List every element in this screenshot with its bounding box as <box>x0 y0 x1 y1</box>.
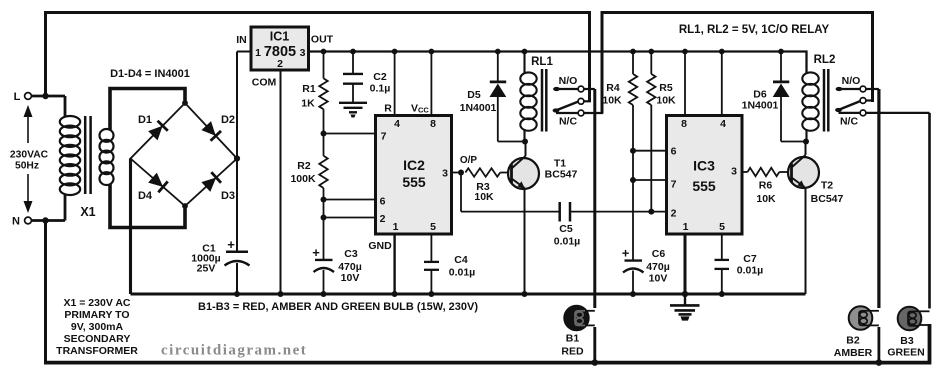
node: +5V rail at R4 <box>630 49 636 55</box>
svg-text:2: 2 <box>277 58 283 70</box>
svg-text:1: 1 <box>255 47 261 59</box>
diode D1 <box>148 121 168 141</box>
svg-text:2: 2 <box>380 213 386 225</box>
svg-text:3: 3 <box>731 166 737 178</box>
wire: B1 line from RL1 N/O <box>593 89 596 308</box>
wire: RL2 N/C to B3 line <box>866 112 930 114</box>
svg-text:D2: D2 <box>221 114 235 126</box>
wire: 0V ground rail <box>131 293 806 296</box>
node: COM ground <box>278 291 284 297</box>
node: C7 ground <box>719 291 725 297</box>
node: C1 ground <box>234 291 240 297</box>
transistor T2 BC547 <box>788 157 819 188</box>
wire: bridge diamond <box>131 103 238 206</box>
svg-text:IC2: IC2 <box>403 157 425 173</box>
resistor R3 10K <box>465 168 500 176</box>
svg-text:N/O: N/O <box>559 75 578 87</box>
diode D4 <box>148 172 168 192</box>
wire: right block 230V N/C feed border <box>602 13 873 114</box>
svg-text:IC1: IC1 <box>270 30 290 44</box>
svg-text:B1: B1 <box>566 333 580 345</box>
svg-text:25V: 25V <box>197 263 216 275</box>
svg-text:D1-D4 = IN4001: D1-D4 = IN4001 <box>110 68 190 80</box>
svg-text:9V, 300mA: 9V, 300mA <box>71 321 124 333</box>
svg-text:4: 4 <box>720 118 726 130</box>
wire: IC3 pin 5 to C7 <box>721 234 723 260</box>
wire: IC3 pin 3 to R6 <box>742 171 748 173</box>
svg-text:1: 1 <box>683 221 689 233</box>
svg-text:D1: D1 <box>138 114 152 126</box>
svg-text:0.01µ: 0.01µ <box>737 265 764 277</box>
resistor R5 10K <box>650 52 652 75</box>
node: R5 to trigger wire <box>648 209 654 215</box>
node: +5V rail at IC3 pin4 <box>719 49 725 55</box>
svg-text:100K: 100K <box>290 173 316 185</box>
svg-text:7: 7 <box>671 178 677 190</box>
svg-text:C2: C2 <box>373 71 387 83</box>
svg-text:R4: R4 <box>606 82 620 94</box>
wire: B3 line from RL2 N/C <box>928 113 931 309</box>
wire: 230V L line top border (left block) <box>46 13 590 103</box>
wire: secondary bottom to bridge <box>110 184 185 228</box>
svg-text:PRIMARY TO: PRIMARY TO <box>64 309 129 321</box>
node: +5V rail at D5 <box>495 49 501 55</box>
svg-text:RL1: RL1 <box>531 56 553 68</box>
relay RL2 coil <box>805 52 807 75</box>
wire: IC3 pin 4 to rail <box>721 52 723 116</box>
svg-text:1K: 1K <box>301 98 315 110</box>
svg-text:TRANSFORMER: TRANSFORMER <box>56 345 138 357</box>
wire: RL2 pole to border <box>866 99 874 101</box>
svg-text:3: 3 <box>300 47 306 59</box>
node: T1 emitter gnd <box>522 291 528 297</box>
node: IC3 pin1 gnd <box>682 291 688 297</box>
node: B1 bottom <box>592 359 599 366</box>
svg-text:IC3: IC3 <box>693 158 715 174</box>
svg-text:B1-B3 = RED, AMBER AND GREEN B: B1-B3 = RED, AMBER AND GREEN BULB (15W, … <box>198 301 478 313</box>
diode D5 1N4001 (flyback) <box>497 52 499 81</box>
wire: B2 line from RL2 N/O <box>877 89 880 308</box>
svg-text:555: 555 <box>402 174 426 190</box>
resistor R6 10K <box>748 168 780 176</box>
node: C6 ground <box>630 291 636 297</box>
node: +5V rail at D6 <box>778 49 784 55</box>
svg-text:B2: B2 <box>846 335 860 347</box>
capacitor C7 0.01u <box>715 259 730 261</box>
node: +5V rail at pin8 <box>429 49 435 55</box>
svg-text:C3: C3 <box>344 248 358 260</box>
wire: pin6 node to pin2 node <box>323 200 325 218</box>
node: +5V rail at R5 <box>648 49 654 55</box>
node: R2/pin6 <box>321 197 327 203</box>
svg-text:+: + <box>622 246 630 261</box>
node: pin2/C3 <box>321 215 327 221</box>
svg-text:5: 5 <box>430 221 436 233</box>
node: C3 ground <box>321 291 327 297</box>
diode D6 1N4001 (flyback) <box>780 52 782 81</box>
node: T2 collector / RL2 coil / D6 <box>803 139 809 145</box>
svg-text:230VAC: 230VAC <box>10 150 49 161</box>
svg-text:T2: T2 <box>821 180 833 192</box>
svg-text:N/O: N/O <box>842 75 861 87</box>
svg-text:1N4001: 1N4001 <box>742 100 779 112</box>
wire: IC3 pin 8 to rail <box>684 52 686 116</box>
svg-text:R1: R1 <box>302 83 316 95</box>
svg-text:N/C: N/C <box>559 116 578 128</box>
svg-text:+: + <box>312 245 320 260</box>
diode D2 <box>201 121 221 141</box>
wire: IC2 pin 1 to ground <box>393 234 395 294</box>
relay RL2 core <box>823 69 826 132</box>
svg-text:2: 2 <box>671 207 677 219</box>
node: O/P <box>458 170 464 176</box>
svg-text:D3: D3 <box>221 190 235 202</box>
resistor R4 10K <box>632 52 634 75</box>
relay RL2 N/C contact <box>839 112 861 114</box>
svg-text:0.01µ: 0.01µ <box>449 267 476 279</box>
transistor T1 BC547 <box>508 158 539 189</box>
svg-text:circuitdiagram.net: circuitdiagram.net <box>161 343 307 359</box>
capacitor C3 470u 10V <box>323 218 325 260</box>
wire: bridge positive output up to IC1 IN <box>236 52 238 252</box>
svg-text:C4: C4 <box>454 254 468 266</box>
svg-text:4: 4 <box>394 118 400 130</box>
svg-text:L: L <box>14 91 21 103</box>
capacitor C4 0.01u <box>424 261 439 263</box>
wire: RL1 N/C to right block border <box>584 112 604 114</box>
bulb B2 AMBER <box>849 306 873 330</box>
relay RL2 N/O contact <box>837 88 863 90</box>
wire: IC2 pin 3 output node <box>452 172 461 174</box>
terminal L <box>31 95 65 98</box>
svg-text:GREEN: GREEN <box>887 347 924 359</box>
node: +5V rail at IC3 pin8 <box>682 49 688 55</box>
node: T1 collector / RL1 coil / D5 <box>522 139 528 145</box>
wire: to IC2 pin 2 <box>324 217 376 219</box>
node: R1/R2/pin7 <box>321 131 327 137</box>
bulb B1 RED <box>564 306 588 330</box>
svg-text:SECONDARY: SECONDARY <box>64 333 131 345</box>
relay RL1 pole lever <box>555 102 579 112</box>
relay RL1 N/C contact <box>556 112 578 114</box>
node: B2 bottom <box>876 359 883 366</box>
wire: to IC2 pin 7 <box>324 133 376 135</box>
svg-text:BC547: BC547 <box>545 169 578 181</box>
node: +5V rail at C2 <box>350 49 356 55</box>
svg-text:N/C: N/C <box>840 116 859 128</box>
wire: to IC3 pin 7 <box>633 179 667 181</box>
svg-text:470µ: 470µ <box>646 261 670 273</box>
svg-text:COM: COM <box>252 77 277 89</box>
wire: to IC3 pin 6 <box>633 150 667 152</box>
wire: T2 emitter to ground rail <box>805 187 807 294</box>
svg-text:R2: R2 <box>297 160 311 172</box>
svg-text:X1 = 230V AC: X1 = 230V AC <box>63 297 130 309</box>
node: N junction <box>42 217 48 223</box>
wire: bridge negative output to ground rail <box>129 159 132 295</box>
svg-text:6: 6 <box>380 196 386 208</box>
svg-text:R5: R5 <box>659 82 673 94</box>
relay RL1 coil <box>523 52 525 74</box>
svg-text:3: 3 <box>442 168 448 180</box>
node: bridge top <box>182 100 188 106</box>
relay RL2 pole lever <box>837 101 861 111</box>
svg-text:10V: 10V <box>649 273 668 285</box>
ground symbol (C2) <box>339 102 367 104</box>
wire: IC3 pin 1 to ground <box>684 234 687 294</box>
resistor R1 1K <box>323 52 325 79</box>
earth ground symbol <box>684 294 686 305</box>
svg-text:50Hz: 50Hz <box>15 161 39 172</box>
bulb B3 GREEN <box>898 307 922 331</box>
svg-text:IN: IN <box>236 34 247 46</box>
wire: RL1 N/O to B1 line <box>584 88 595 90</box>
svg-text:RL1, RL2 = 5V, 1C/O RELAY: RL1, RL2 = 5V, 1C/O RELAY <box>679 24 830 36</box>
wire: IC1 COM to ground rail <box>280 70 282 294</box>
relay RL1 core <box>541 69 544 132</box>
timer IC2 555 <box>376 116 452 235</box>
svg-text:GND: GND <box>368 240 392 252</box>
wire: +5V rail <box>309 52 807 75</box>
svg-text:1N4001: 1N4001 <box>460 102 497 114</box>
regulator IC1 7805 <box>251 27 309 70</box>
svg-text:N: N <box>12 216 20 228</box>
svg-text:D4: D4 <box>138 190 153 202</box>
diode D3 <box>201 172 221 192</box>
wire: IC2 pin 5 to C4 <box>430 234 432 262</box>
node: L junction <box>42 93 48 99</box>
svg-text:O/P: O/P <box>460 155 478 166</box>
svg-text:RED: RED <box>561 346 584 358</box>
svg-text:1: 1 <box>393 221 399 233</box>
terminal N <box>31 219 65 222</box>
wire: secondary top to bridge <box>110 89 185 131</box>
svg-text:D5: D5 <box>467 89 481 101</box>
svg-text:OUT: OUT <box>311 34 334 46</box>
svg-text:C5: C5 <box>559 223 573 235</box>
svg-text:10V: 10V <box>341 272 360 284</box>
node: C4 ground <box>428 291 434 297</box>
node: R4/pin7 <box>630 177 636 183</box>
node: +5V rail at R1 <box>321 49 327 55</box>
wire: bottom 230V N rail <box>44 324 930 363</box>
capacitor C2 0.1u <box>352 52 354 74</box>
svg-text:C6: C6 <box>652 248 666 260</box>
node: +5V rail at pin4 <box>392 49 398 55</box>
svg-text:5: 5 <box>719 221 725 233</box>
svg-text:0.01µ: 0.01µ <box>554 236 581 248</box>
capacitor C5 0.01u (coupling) <box>460 173 462 212</box>
svg-text:8: 8 <box>430 118 436 130</box>
node: R4/pin6 <box>630 148 636 154</box>
wire: IC2 pin 8 to rail <box>430 52 432 116</box>
wire: RL2 N/O to B2 line <box>866 88 879 90</box>
svg-text:555: 555 <box>692 178 716 194</box>
wire: RL1 pole to L line <box>584 100 591 102</box>
wire: N line down to bottom rail <box>44 221 47 365</box>
svg-text:6: 6 <box>671 146 677 158</box>
node: bridge bottom <box>182 203 188 209</box>
svg-text:B3: B3 <box>900 335 914 347</box>
svg-text:10K: 10K <box>756 193 776 205</box>
wire: IC2 pin 4 to rail <box>394 52 396 116</box>
svg-text:10K: 10K <box>474 191 494 203</box>
svg-text:RL2: RL2 <box>814 54 836 66</box>
wire: T1 emitter to ground rail <box>524 188 526 294</box>
svg-text:C7: C7 <box>743 253 757 265</box>
svg-text:0.1µ: 0.1µ <box>370 83 391 95</box>
node: +5V rail at RL1 <box>522 49 528 55</box>
label 230VAC 50Hz with mains arrow <box>27 117 29 143</box>
wire: to IC2 pin 6 <box>324 199 376 201</box>
svg-text:BC547: BC547 <box>811 193 844 205</box>
svg-text:X1: X1 <box>80 205 95 219</box>
resistor R2 100K <box>323 134 325 156</box>
svg-text:R: R <box>384 103 392 115</box>
svg-text:R6: R6 <box>759 180 773 192</box>
wire: B2 to bottom rail <box>878 327 881 363</box>
timer IC3 555 <box>667 116 743 235</box>
svg-text:7: 7 <box>381 131 387 143</box>
svg-text:8: 8 <box>681 118 687 130</box>
wire: B1 to bottom rail <box>593 327 596 363</box>
svg-text:AMBER: AMBER <box>834 347 873 359</box>
svg-text:10K: 10K <box>602 95 622 107</box>
node: pin1 gnd <box>392 291 398 297</box>
svg-text:10K: 10K <box>656 95 676 107</box>
node: bridge right (+) <box>234 155 240 161</box>
transformer X1 <box>64 96 67 117</box>
svg-text:+: + <box>227 237 235 252</box>
relay RL1 N/O contact <box>554 88 581 90</box>
